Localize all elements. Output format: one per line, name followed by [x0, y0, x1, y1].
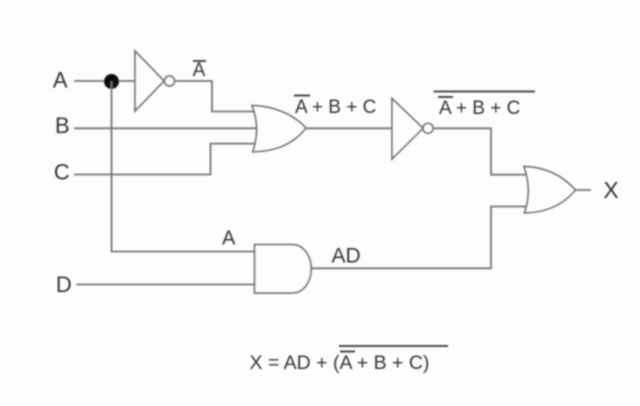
svg-text:X = AD + (A + B + C): X = AD + (A + B + C) [250, 352, 430, 374]
svg-text:A + B + C: A + B + C [439, 98, 520, 119]
svg-text:B: B [55, 113, 70, 138]
wire inverter U3 output to OR gate U5 top input [433, 128, 529, 174]
wire D input to AND gate U4 [77, 284, 255, 286]
or-gate U2 (A-bar + B + C) [252, 106, 306, 152]
node C input label [54, 160, 70, 185]
wire inverter U1 output to OR gate U2 top input [175, 81, 259, 112]
and-gate U4 (AD) [255, 245, 312, 293]
svg-text:A: A [193, 60, 206, 81]
svg-text:A: A [222, 228, 236, 250]
net label AD [332, 245, 361, 268]
inverter U3 (NOT gate after OR) [392, 99, 433, 160]
node X output label [603, 177, 618, 203]
node B input label [55, 113, 70, 138]
net label A-bar + B + C [294, 96, 376, 119]
inverter U1 (NOT gate for A) [135, 51, 175, 111]
wire C input to OR gate U2 bottom input [74, 144, 258, 175]
wire OR gate U2 output to inverter U3 input [306, 127, 392, 129]
svg-text:C: C [54, 160, 70, 185]
net label NOT(A-bar + B + C) [434, 92, 536, 120]
wire OR gate U5 output to X [576, 189, 592, 191]
or-gate U5 (output X) [524, 167, 576, 213]
svg-text:AD: AD [332, 245, 361, 268]
wire A input to inverter [74, 80, 135, 82]
node A input label [53, 68, 68, 93]
wire B input to OR gate U2 middle input [74, 127, 258, 129]
formula X = AD + NOT(A-bar + B + C) [250, 346, 449, 374]
svg-text:D: D [56, 272, 72, 297]
net label A-bar [193, 60, 206, 81]
net label A above AND input wire [222, 228, 236, 250]
node D input label [56, 272, 72, 297]
svg-text:A + B + C: A + B + C [295, 97, 376, 118]
wire node A down to AND gate input [112, 82, 255, 252]
svg-text:A: A [53, 68, 68, 93]
junction dot on node A [104, 74, 119, 89]
svg-text:X: X [603, 177, 618, 203]
wire AND gate U4 output to OR gate U5 bottom input [311, 207, 529, 269]
